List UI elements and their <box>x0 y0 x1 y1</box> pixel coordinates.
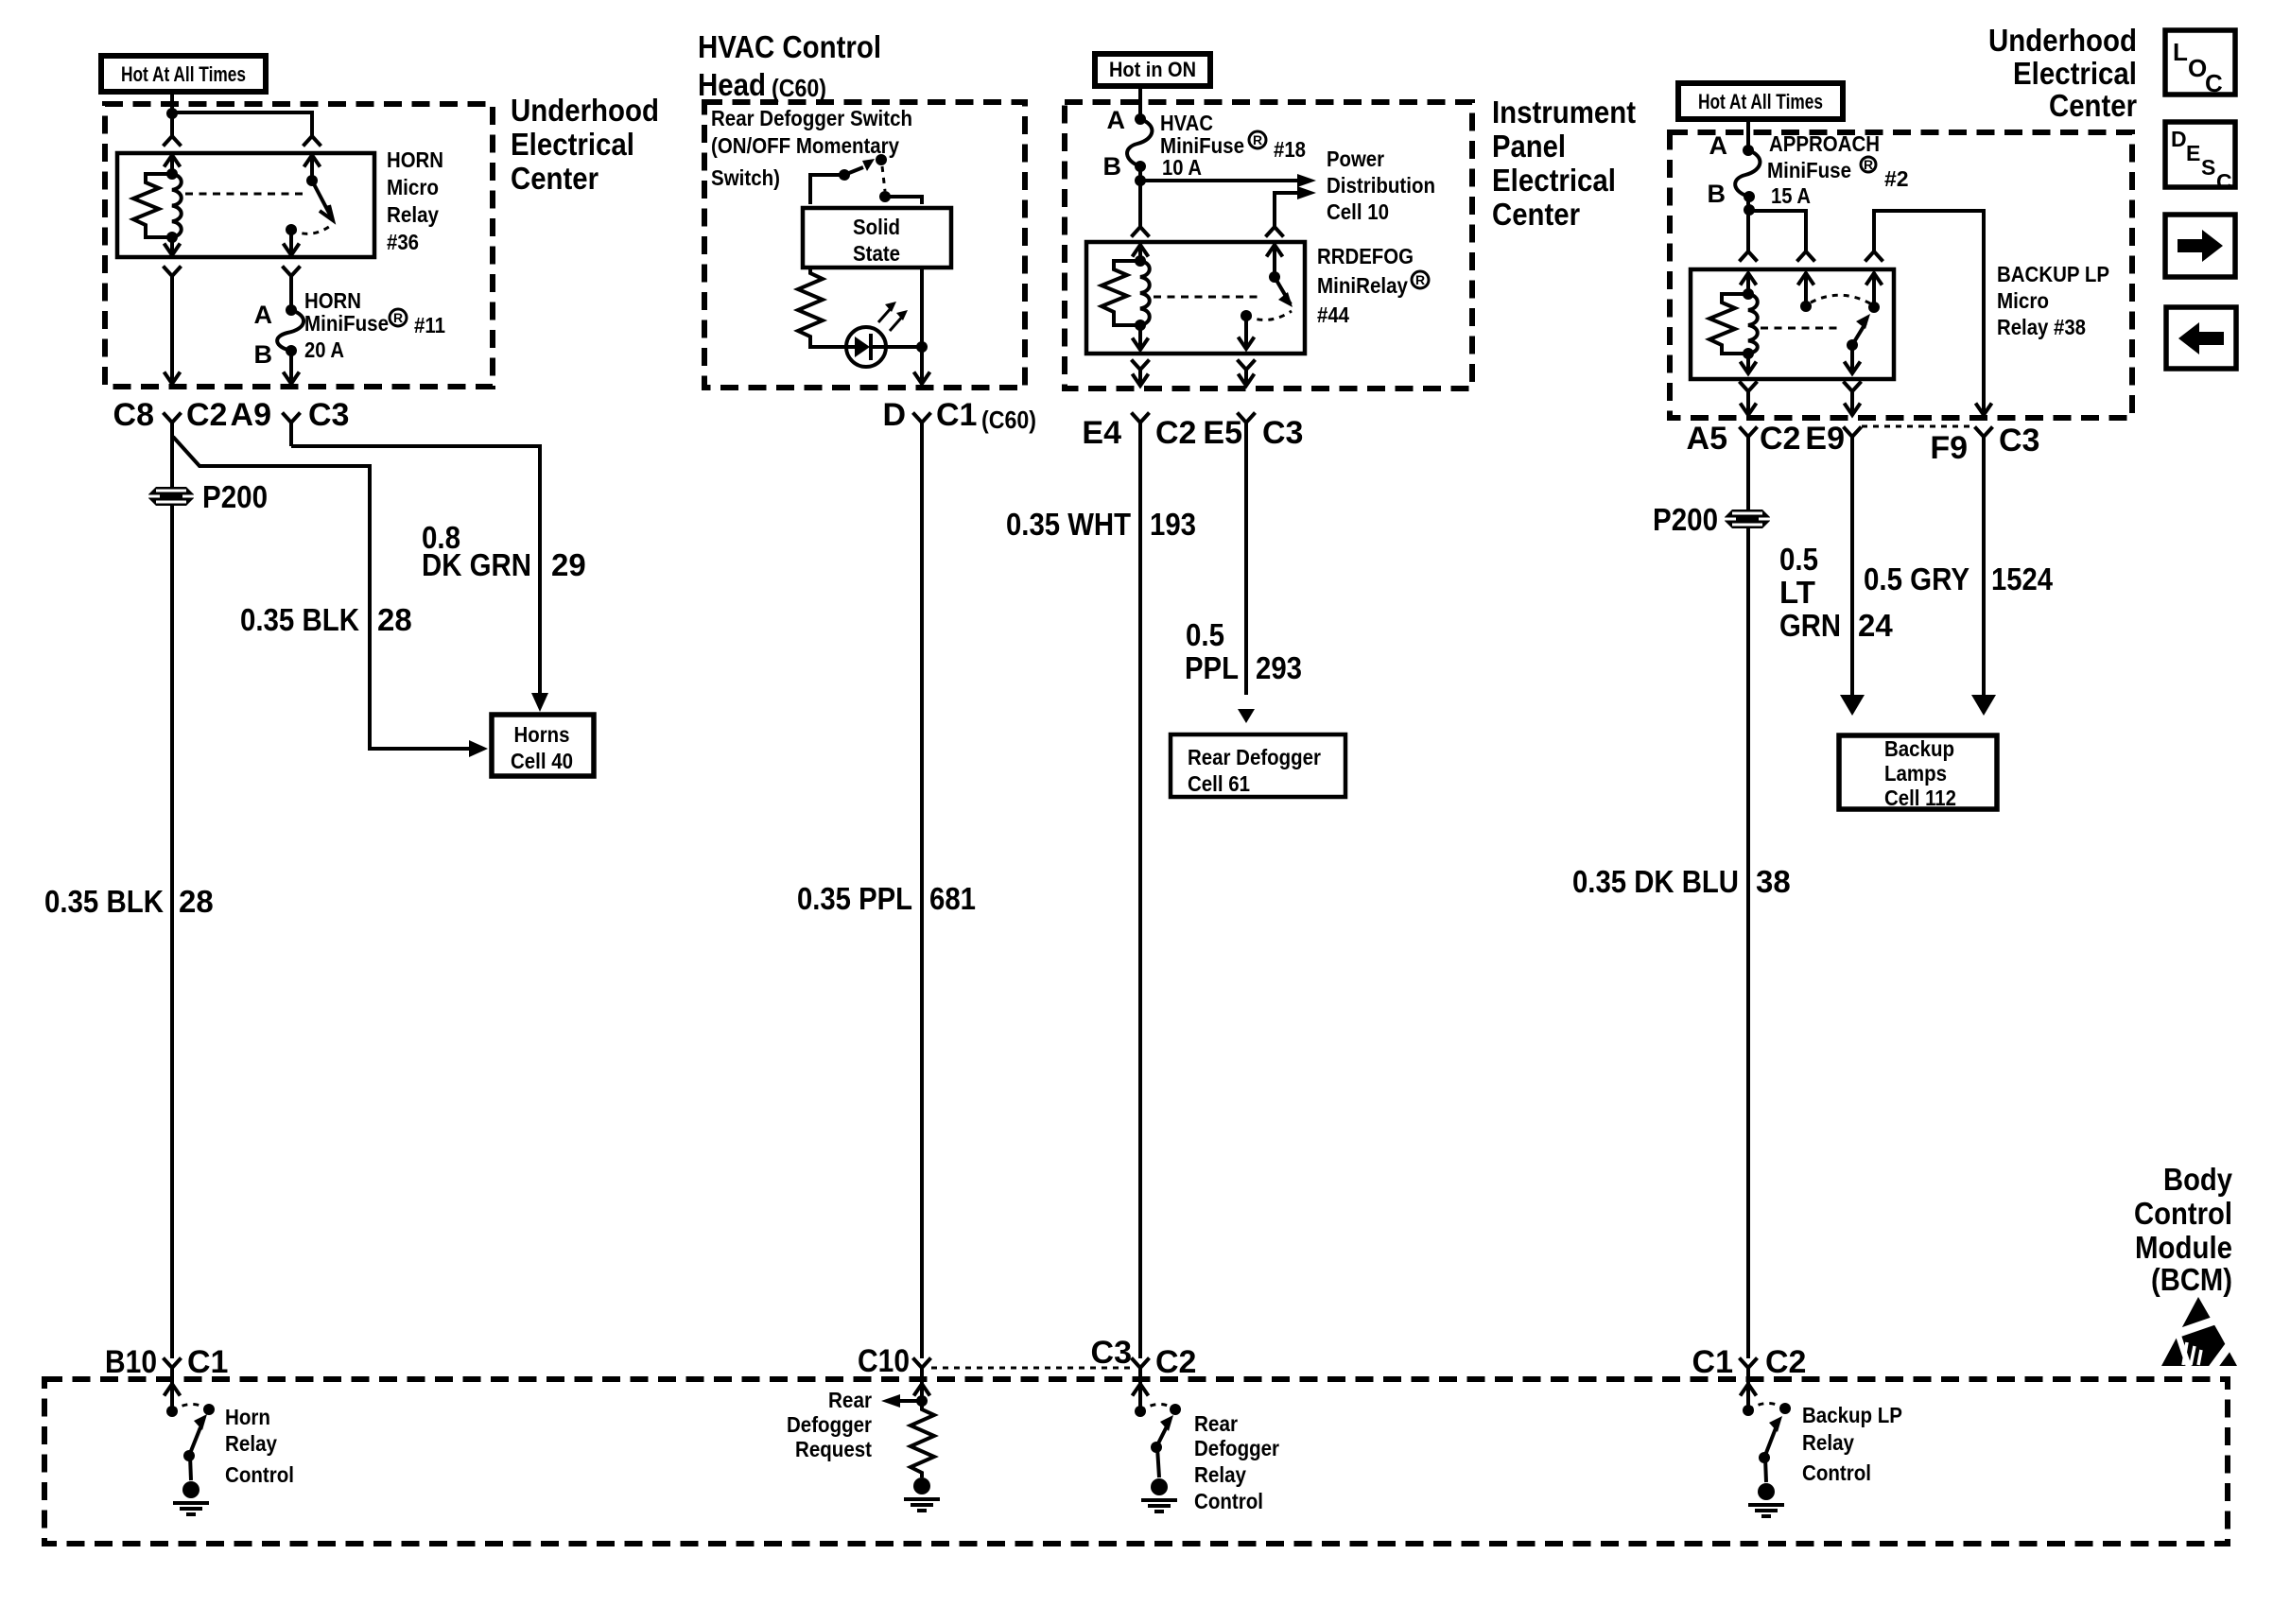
Backup Lamps Cell 112 box <box>1839 735 1997 810</box>
node coil bottom K44 <box>1135 320 1146 331</box>
arrow exit UEC at A5 <box>1741 404 1757 416</box>
wire fuse side <box>289 276 293 310</box>
svg-text:Hot in ON: Hot in ON <box>1109 58 1196 81</box>
svg-text:Micro: Micro <box>1997 288 2049 313</box>
connector Y at C1/C2 (BCM backup) <box>1740 1358 1758 1369</box>
connector Y below relay K38 common pin <box>1844 382 1862 414</box>
svg-text:15 A: 15 A <box>1771 183 1811 208</box>
svg-text:293: 293 <box>1256 650 1302 685</box>
wire label 0.5 LT GRN 24 <box>1779 542 1893 643</box>
arrow exit UEC at E9 <box>1845 404 1861 416</box>
node defog request junction <box>916 1395 928 1407</box>
svg-text:Hot At All Times: Hot At All Times <box>121 62 246 86</box>
connector chevron into relay K38 arm pin <box>1865 251 1883 262</box>
relay K1 HORN Micro Relay #36 box <box>117 153 374 257</box>
arrow into Backup Lamps box (F9 wire) <box>1971 695 1996 716</box>
svg-text:Defogger: Defogger <box>1194 1436 1279 1460</box>
svg-text:P200: P200 <box>1653 502 1718 537</box>
svg-text:Panel: Panel <box>1492 129 1566 164</box>
svg-text:Horns: Horns <box>514 722 570 747</box>
resistor below solid state <box>798 269 846 347</box>
svg-text:GRN: GRN <box>1779 608 1841 643</box>
arrow exit IPEC at E5 <box>1239 374 1255 387</box>
arrow to Power Distribution (1) <box>1297 174 1316 187</box>
fuse F18 HVAC MiniFuse #18 <box>1127 113 1152 172</box>
svg-text:28: 28 <box>377 602 412 637</box>
svg-text:E: E <box>2186 141 2200 165</box>
wire: feed stub from Hot At All Times (right) <box>1746 119 1750 150</box>
svg-text:MiniFuse: MiniFuse <box>304 311 389 336</box>
svg-text:HVAC Control: HVAC Control <box>698 29 881 64</box>
relay K1 coil <box>172 174 182 237</box>
svg-text:Head: Head <box>698 67 766 102</box>
svg-text:Underhood: Underhood <box>1988 23 2137 58</box>
relay K1 switch arm <box>306 175 333 220</box>
connector chevron into relay K44 switch pin <box>1266 227 1284 237</box>
svg-text:E9: E9 <box>1805 421 1845 457</box>
svg-text:A: A <box>1107 106 1126 134</box>
BCM dashed box <box>44 1379 2228 1544</box>
wire to power distribution arrow 1 <box>1138 166 1142 227</box>
svg-text:C: C <box>2205 69 2223 97</box>
Horns Cell 40 box <box>492 715 594 776</box>
fuse F18 label <box>1160 111 1306 180</box>
connector Y at C3/C2 (BCM) <box>1132 1358 1150 1369</box>
resistor (relay K44) <box>1102 261 1140 325</box>
connector Y at A5/C2 <box>1740 427 1758 1359</box>
power label box "Hot At All Times" (right) <box>1678 83 1843 119</box>
resistor (relay K38) <box>1709 294 1748 354</box>
connector chevron into relay switch pin <box>304 136 321 147</box>
label Rear Defogger Switch (ON/OFF Momentary Switch) <box>711 106 912 190</box>
wire label 0.35 BLK 28 (upper) <box>240 602 412 637</box>
connector Y below relay K44 coil pin <box>1132 360 1150 385</box>
relay K1 coil pin wire + arrow up <box>165 155 181 174</box>
relay K38 arm pin wire + arrow up <box>1866 272 1883 307</box>
svg-text:A5: A5 <box>1687 421 1727 457</box>
svg-text:0.5 GRY: 0.5 GRY <box>1864 561 1969 596</box>
svg-text:A: A <box>1709 131 1728 160</box>
fuse F11 label <box>304 288 445 362</box>
relay K44 coil <box>1140 261 1150 325</box>
relay K44 switch pin wire + arrow up <box>1267 244 1283 277</box>
svg-text:Control: Control <box>1802 1460 1871 1485</box>
node K38 NC contact <box>1800 301 1812 312</box>
svg-text:C3: C3 <box>1262 415 1303 451</box>
resistor (defogger request pull) <box>911 1401 934 1477</box>
svg-text:A: A <box>254 301 273 329</box>
wire B junction down to relay <box>1746 197 1750 251</box>
wire branch C2 diagonal to horn feed <box>173 437 469 749</box>
svg-text:Control: Control <box>2134 1196 2232 1231</box>
svg-text:Micro: Micro <box>387 175 439 199</box>
svg-text:Cell 40: Cell 40 <box>511 749 573 773</box>
relay K38 NC pin wire + arrow up <box>1798 272 1814 306</box>
connector Y at D/C1 <box>913 413 931 1359</box>
wire: feed stub from Hot in ON <box>1138 86 1142 119</box>
svg-text:E5: E5 <box>1203 415 1242 451</box>
svg-text:681: 681 <box>929 881 976 916</box>
svg-text:0.35 WHT: 0.35 WHT <box>1006 507 1131 542</box>
wire: junction down to relay coil pin connector <box>170 113 174 136</box>
svg-text:Center: Center <box>511 161 599 196</box>
fuse F2 label <box>1767 131 1909 208</box>
ground (defogger relay control) <box>1141 1447 1177 1512</box>
svg-text:C1: C1 <box>187 1344 228 1380</box>
svg-text:Rear: Rear <box>1194 1411 1238 1436</box>
svg-text:(ON/OFF Momentary: (ON/OFF Momentary <box>711 133 899 158</box>
svg-text:0.5: 0.5 <box>1779 542 1818 577</box>
svg-text:C3: C3 <box>1999 423 2039 458</box>
svg-text:HORN: HORN <box>387 147 443 172</box>
connector chevron into relay K38 coil pin <box>1740 251 1758 262</box>
svg-text:0.35 PPL: 0.35 PPL <box>797 881 912 916</box>
switch rear defogger relay control (BCM) <box>1135 1404 1181 1453</box>
wire solid state output <box>920 269 924 382</box>
label Rear Defogger Relay Control <box>1194 1411 1279 1513</box>
svg-text:#44: #44 <box>1317 302 1349 327</box>
node LED junction <box>916 341 928 353</box>
node: feed junction <box>166 108 178 119</box>
grommet P200 (left) <box>148 487 194 506</box>
svg-text:Backup LP: Backup LP <box>1802 1403 1902 1427</box>
svg-text:0.35 DK BLU: 0.35 DK BLU <box>1572 864 1739 899</box>
label Horn Relay Control <box>225 1405 294 1487</box>
connector Y at E4/C2 <box>1132 413 1150 1359</box>
node coil top K44 <box>1135 255 1146 267</box>
svg-text:B: B <box>254 340 273 369</box>
svg-text:S: S <box>2201 155 2215 180</box>
svg-text:C8: C8 <box>113 397 154 433</box>
svg-text:Switch): Switch) <box>711 165 780 190</box>
dashed actuation link K1 <box>185 193 303 196</box>
svg-text:C1: C1 <box>936 397 977 433</box>
node K44 switch common <box>1241 310 1252 321</box>
label Power Distribution Cell 10 <box>1327 147 1435 224</box>
wire label 0.8 DK GRN 29 <box>422 520 586 582</box>
svg-text:Relay: Relay <box>1194 1462 1246 1487</box>
svg-text:Rear: Rear <box>828 1388 872 1412</box>
svg-text:Module: Module <box>2135 1230 2232 1265</box>
svg-text:#18: #18 <box>1274 137 1306 162</box>
svg-text:(BCM): (BCM) <box>2151 1262 2232 1297</box>
svg-text:E4: E4 <box>1082 415 1121 451</box>
svg-text:R: R <box>1864 157 1873 172</box>
wire K44 coil bottom down + arrow <box>1133 325 1149 350</box>
LED indicator <box>846 327 922 367</box>
svg-text:HVAC: HVAC <box>1160 111 1213 135</box>
wire into BCM defog relay pin + arrow up <box>1133 1368 1149 1411</box>
connector Y at E9 <box>1844 427 1862 696</box>
svg-text:0.35 BLK: 0.35 BLK <box>240 602 359 637</box>
node K38 NO contact <box>1868 302 1880 313</box>
connector chevron into relay K44 coil pin <box>1132 227 1150 237</box>
legend left-arrow box <box>2166 307 2236 369</box>
HVAC Control Head dashed box <box>704 102 1025 388</box>
svg-text:Power: Power <box>1327 147 1384 171</box>
svg-text:0.5: 0.5 <box>1186 617 1224 652</box>
ground (backup lp relay control) <box>1748 1458 1784 1516</box>
node S1 lower contact <box>879 191 891 202</box>
connector Y at E5/C3 <box>1238 413 1256 696</box>
svg-text:BACKUP LP: BACKUP LP <box>1997 262 2109 286</box>
dashed throw arc K1 <box>291 224 333 233</box>
relay K44 coil pin wire + arrow up <box>1133 244 1149 261</box>
svg-text:Horn: Horn <box>225 1405 270 1429</box>
wire: junction across to switch pin <box>172 112 312 136</box>
node coil top <box>166 168 178 180</box>
svg-text:HORN: HORN <box>304 288 361 313</box>
dashed throw arc K38 <box>1811 295 1870 303</box>
svg-text:Control: Control <box>1194 1489 1263 1513</box>
arrow exit UEC at C8 <box>165 372 181 385</box>
svg-text:Center: Center <box>1492 197 1580 232</box>
svg-text:MiniRelay: MiniRelay <box>1317 273 1408 298</box>
svg-text:Cell 10: Cell 10 <box>1327 199 1389 224</box>
wire K38 common down + arrow <box>1845 345 1861 373</box>
relay K38 coil pin wire + arrow up <box>1741 272 1757 294</box>
svg-text:1524: 1524 <box>1991 561 2054 596</box>
wire B junction to NC contact pin <box>1749 211 1806 251</box>
svg-text:B: B <box>1103 152 1122 181</box>
label Backup LP Relay Control <box>1802 1403 1902 1485</box>
pin label C1 (C60) <box>936 397 1036 434</box>
label Underhood Electrical Center (right) <box>1988 23 2137 123</box>
svg-text:RRDEFOG: RRDEFOG <box>1317 244 1414 268</box>
legend DESC box <box>2165 122 2235 194</box>
relay K1 switch pin wire + arrow up <box>304 155 321 181</box>
connector Y below relay K1 coil pin <box>164 267 182 277</box>
svg-text:L: L <box>2173 38 2188 66</box>
ground (horn relay control) <box>173 1456 209 1514</box>
wire into BCM defog request pin + arrow up <box>914 1368 930 1409</box>
arrow into Horns cell box (top) <box>531 693 548 712</box>
svg-text:C2: C2 <box>1155 1344 1196 1380</box>
wire S1 contact to solid state <box>885 197 922 204</box>
relay K38 BACKUP LP Micro Relay #38 box <box>1691 269 1894 379</box>
wire label 0.5 GRY 1524 <box>1864 561 2054 596</box>
svg-text:B10: B10 <box>105 1344 157 1380</box>
label Body Control Module (BCM) <box>2134 1162 2233 1297</box>
svg-text:PPL: PPL <box>1185 650 1239 685</box>
relay K38 coil <box>1748 294 1758 354</box>
svg-text:10 A: 10 A <box>1162 155 1202 180</box>
legend right-arrow box <box>2165 215 2235 277</box>
connector chevron into relay K38 NC pin <box>1797 251 1815 262</box>
svg-text:#2: #2 <box>1884 166 1909 191</box>
wire K38 coil bottom down + arrow <box>1741 354 1757 373</box>
dashed throw arc K44 <box>1246 311 1292 320</box>
svg-text:Relay: Relay <box>1802 1430 1854 1455</box>
node B junction (F2) <box>1744 204 1755 216</box>
svg-text:C1: C1 <box>1692 1344 1733 1380</box>
svg-text:Control: Control <box>225 1462 294 1487</box>
svg-text:C2: C2 <box>1765 1344 1806 1380</box>
relay K44 label <box>1317 244 1429 327</box>
wire into BCM horn pin + arrow up <box>165 1368 181 1411</box>
svg-text:Electrical: Electrical <box>1492 163 1616 198</box>
wire label 0.35 WHT 193 <box>1006 507 1196 542</box>
wire label 0.35 DK BLU 38 <box>1572 864 1791 899</box>
relay K1 label <box>387 147 443 254</box>
svg-text:P200: P200 <box>202 479 268 514</box>
svg-text:193: 193 <box>1150 507 1196 542</box>
label Underhood Electrical Center (left) <box>511 93 659 196</box>
connector Y below relay K44 switch pin <box>1238 360 1256 385</box>
svg-text:State: State <box>853 241 900 266</box>
node coil bottom <box>166 232 178 243</box>
relay K44 switch arm <box>1269 271 1293 307</box>
svg-text:Rear Defogger Switch: Rear Defogger Switch <box>711 106 912 130</box>
dashed connector link E9-F9 <box>1862 425 1974 428</box>
grommet P200 (right) <box>1725 510 1770 528</box>
fuse F11 HORN MiniFuse #11 <box>277 304 304 356</box>
wire K1 common down + arrow <box>284 230 300 255</box>
arrow exit IPEC at E4 <box>1133 374 1149 387</box>
Solid State box <box>803 208 951 268</box>
svg-text:38: 38 <box>1756 864 1791 899</box>
fuse F2 APPROACH MiniFuse #2 <box>1735 145 1760 202</box>
svg-text:C2: C2 <box>1760 421 1800 457</box>
wire label 0.35 PPL 681 <box>797 881 976 916</box>
power label box "Hot At All Times" (UEC left) <box>101 56 266 92</box>
svg-text:R: R <box>1415 272 1425 287</box>
svg-text:Backup: Backup <box>1884 736 1954 761</box>
arrow exit UEC at F9 <box>1976 404 1992 416</box>
arrow into Horns cell box (left) <box>469 740 488 757</box>
svg-text:20 A: 20 A <box>304 337 344 362</box>
svg-text:29: 29 <box>551 547 586 582</box>
wire + arrow Rear Defogger Request <box>881 1394 922 1408</box>
arrow to Power Distribution (2) <box>1297 186 1316 199</box>
connector Y at A9/C3 <box>283 413 301 447</box>
connector Y below relay K1 switch pin <box>283 267 301 277</box>
connector chevron into relay coil pin <box>164 136 182 147</box>
svg-text:Cell 112: Cell 112 <box>1884 786 1956 810</box>
connector Y at F9/C3 <box>1975 427 1993 696</box>
relay K44 RRDEFOG MiniRelay #44 box <box>1086 242 1305 354</box>
svg-text:Body: Body <box>2163 1162 2233 1197</box>
svg-text:0.35 BLK: 0.35 BLK <box>44 884 164 919</box>
svg-text:R: R <box>1253 132 1262 147</box>
arrow into Rear Defogger cell box <box>1238 709 1255 723</box>
wire coil side down to UEC edge <box>170 276 174 382</box>
dashed throw link S1 <box>882 166 885 191</box>
svg-text:#36: #36 <box>387 230 419 254</box>
svg-text:R: R <box>393 310 403 325</box>
svg-text:F9: F9 <box>1930 430 1968 466</box>
wire relay switch pin up to power distribution arrow 2 <box>1275 193 1299 227</box>
label Instrument Panel Electrical Center <box>1492 95 1636 232</box>
svg-text:Request: Request <box>795 1437 872 1461</box>
connector Y at C10 <box>913 1358 931 1369</box>
wire switch-arm pin to F9 feed <box>1874 211 1984 412</box>
svg-text:MiniFuse: MiniFuse <box>1767 158 1851 182</box>
svg-text:#11: #11 <box>414 313 445 337</box>
Rear Defogger Cell 61 box <box>1171 734 1345 797</box>
Underhood Electrical Center dashed box (left) <box>105 104 493 387</box>
LED light rays <box>878 302 908 331</box>
Instrument Panel Electrical Center dashed box <box>1065 102 1472 389</box>
svg-text:Defogger: Defogger <box>787 1412 872 1437</box>
relay K38 label <box>1997 262 2109 339</box>
svg-text:D: D <box>882 397 906 433</box>
Underhood Electrical Center dashed box (right) <box>1670 132 2132 418</box>
node coil bottom K38 <box>1743 348 1754 359</box>
svg-text:APPROACH: APPROACH <box>1769 131 1880 156</box>
svg-text:Electrical: Electrical <box>511 127 634 162</box>
svg-text:24: 24 <box>1858 608 1893 643</box>
svg-text:(C60): (C60) <box>981 406 1036 434</box>
svg-text:Relay #38: Relay #38 <box>1997 315 2086 339</box>
svg-text:Lamps: Lamps <box>1884 761 1947 786</box>
arrow into Backup Lamps box (E9 wire) <box>1840 695 1865 716</box>
arrow exit HVAC head at D <box>914 372 930 385</box>
svg-text:Center: Center <box>2049 88 2137 123</box>
svg-text:Instrument: Instrument <box>1492 95 1636 130</box>
svg-text:Cell 61: Cell 61 <box>1188 771 1250 796</box>
wire branch C3 to horns <box>291 446 540 693</box>
wire K44 common down + arrow <box>1239 316 1255 349</box>
switch horn relay control (BCM) <box>166 1404 215 1461</box>
dashed actuation link K44 <box>1154 296 1259 299</box>
svg-text:C3: C3 <box>1091 1335 1132 1371</box>
svg-text:C2: C2 <box>186 397 227 433</box>
node K1 switch common <box>286 224 297 235</box>
svg-text:D: D <box>2171 127 2187 151</box>
dashed connector link C10-C3 <box>931 1367 1131 1370</box>
svg-text:Underhood: Underhood <box>511 93 659 128</box>
resistor (relay K1 coil suppression) <box>133 174 172 237</box>
dashed actuation link K38 <box>1761 327 1842 330</box>
svg-text:C2: C2 <box>1155 415 1196 451</box>
connector Y at C8/C2 <box>164 413 182 1359</box>
svg-text:C3: C3 <box>308 397 349 433</box>
wire label 0.35 BLK 28 (lower) <box>44 884 214 919</box>
relay K38 switch arm <box>1847 314 1870 351</box>
svg-text:Solid: Solid <box>853 215 900 239</box>
ESD sensitive symbol <box>2161 1297 2237 1371</box>
svg-text:Relay: Relay <box>387 202 439 227</box>
wire: feed stub from Hot At All Times into UEC <box>170 95 174 113</box>
connector Y at B10/C1 <box>164 1358 182 1369</box>
wire K1 coil bottom down + arrow <box>165 237 181 255</box>
svg-text:C10: C10 <box>858 1343 910 1379</box>
svg-text:A9: A9 <box>231 397 271 433</box>
svg-text:Electrical: Electrical <box>2013 56 2137 91</box>
svg-text:C: C <box>2216 169 2232 194</box>
node coil top K38 <box>1743 288 1754 300</box>
svg-text:DK GRN: DK GRN <box>422 547 531 582</box>
label Rear Defogger Request <box>787 1388 872 1461</box>
svg-text:B: B <box>1708 180 1726 208</box>
ground (defogger request) <box>904 1477 940 1511</box>
connector Y below relay K38 coil pin <box>1740 382 1758 414</box>
svg-text:Distribution: Distribution <box>1327 173 1435 198</box>
wire F11 B down to edge + arrow <box>284 351 300 384</box>
svg-text:LT: LT <box>1779 575 1815 610</box>
switch S1 momentary (rear defogger switch) <box>810 154 887 204</box>
label HVAC Control Head (C60) <box>698 29 881 102</box>
svg-text:Relay: Relay <box>225 1431 277 1456</box>
svg-text:Hot At All Times: Hot At All Times <box>1698 90 1823 113</box>
wire into BCM backup pin + arrow up <box>1741 1368 1757 1410</box>
wire label 0.5 PPL 293 <box>1185 617 1302 685</box>
switch backup lp relay control (BCM) <box>1743 1403 1791 1463</box>
svg-text:28: 28 <box>179 884 214 919</box>
svg-text:(C60): (C60) <box>772 74 826 102</box>
legend LOC box <box>2165 30 2235 97</box>
